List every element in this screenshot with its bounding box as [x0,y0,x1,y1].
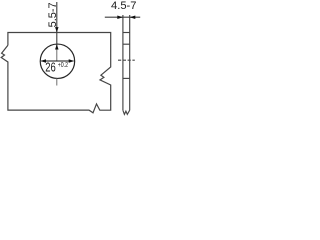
svg-text:26: 26 [45,59,56,74]
svg-text:4.5-7: 4.5-7 [111,0,137,12]
svg-text:+0.2: +0.2 [58,62,68,69]
svg-text:5.5-7: 5.5-7 [47,2,59,27]
